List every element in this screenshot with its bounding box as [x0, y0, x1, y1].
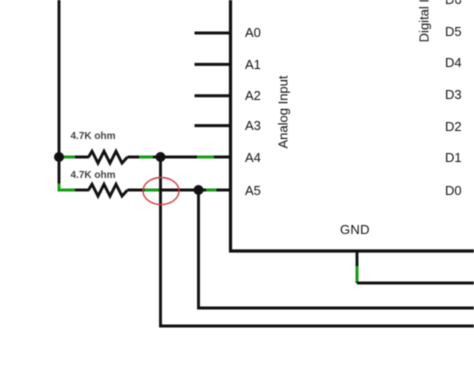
wire: vertical from node C down and right to edge: [199, 190, 474, 308]
wire: row1 from R1 to IC pin A4: [128, 156, 230, 159]
pin label A4: [245, 150, 261, 165]
node C junction dot: [194, 185, 204, 195]
GND pin green segment: [356, 266, 359, 282]
wire: row2 green segment before crossing: [145, 189, 161, 192]
wire: row1 green segment at pin A4: [197, 156, 214, 159]
pin A3: [195, 124, 230, 127]
wire: left vertical node A down to row 2: [58, 157, 61, 184]
pin label D4: [445, 55, 462, 70]
pin label D5: [445, 24, 462, 39]
wire: row1 segment node A to resistor R1: [59, 156, 89, 159]
pin label D0: [445, 183, 462, 198]
node A junction dot: [54, 152, 64, 162]
wire: row2 green segment after node C: [206, 189, 217, 192]
label R2 value 4.7K ohm: [71, 170, 116, 181]
pin A1: [195, 63, 230, 66]
wire: green corner at left of row 2: [59, 184, 75, 191]
pin label A2: [245, 88, 261, 103]
IC U1 bottom border: [229, 249, 474, 252]
wire: GND horizontal to right edge: [357, 282, 474, 285]
wire: row2 from R2 to IC pin A5: [128, 189, 230, 192]
wire: vertical from node B down and right to edge: [161, 157, 474, 326]
wire: left vertical from top to node A: [58, 0, 61, 157]
pin label D1: [445, 150, 462, 165]
resistor R1 (4.7K ohm): [89, 151, 128, 163]
resistor R2 (4.7K ohm): [89, 184, 128, 196]
pin label D2: [445, 119, 462, 134]
pin label D6: [445, 0, 462, 7]
port group label Digital Input: [417, 0, 432, 42]
port group label Analog Input: [275, 75, 290, 148]
pin label A0: [245, 25, 261, 40]
pin A2: [195, 94, 230, 97]
IC U1 left border: [229, 0, 232, 251]
pin label A1: [245, 57, 261, 72]
error highlight red ellipse at crossing: [143, 178, 179, 205]
pin label GND: [340, 222, 370, 237]
wire: row1 green segment after node A: [63, 156, 75, 159]
pin label A3: [245, 118, 261, 133]
label R1 value 4.7K ohm: [71, 131, 116, 142]
node B junction dot: [156, 152, 166, 162]
GND pin stub vertical: [356, 251, 359, 283]
wire: row2 from left to IC pin A5: [75, 189, 89, 192]
wire: row1 green segment before node B: [139, 156, 153, 159]
pin A0: [195, 32, 230, 35]
pin label D3: [445, 87, 462, 102]
pin label A5: [245, 183, 261, 198]
